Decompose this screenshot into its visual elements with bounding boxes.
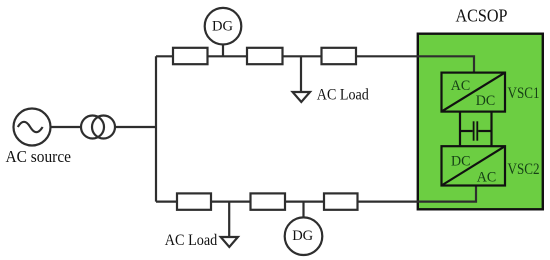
svg-text:DC: DC (451, 154, 471, 170)
svg-text:AC Load: AC Load (165, 232, 218, 249)
svg-text:VSC2: VSC2 (508, 161, 540, 178)
wire: DG1 stem (222, 44, 224, 56)
svg-text:DG: DG (212, 19, 233, 35)
resistor Z4 bottom line impedance (177, 193, 211, 209)
wire: top bus segment 3 (283, 55, 322, 57)
svg-text:AC Load: AC Load (317, 87, 369, 104)
wire: top AC load drop (300, 56, 302, 92)
wire: bottom bus left segment (156, 201, 177, 203)
wire: left vertical riser (155, 56, 157, 201)
green region ACSOP (418, 34, 543, 210)
wire: bottom bus segment 3 (285, 201, 324, 203)
svg-text:AC: AC (477, 169, 497, 185)
wire: AC source to transformer (51, 126, 82, 128)
wire: DC link left vertical (459, 112, 461, 147)
converter VSC2 box (442, 146, 506, 185)
wire: DG2 stem (302, 202, 304, 218)
wire: top bus segment into ACSOP with elbow down to VSC1 (356, 56, 474, 72)
DG1 circle (205, 8, 242, 45)
svg-text:VSC1: VSC1 (508, 85, 540, 102)
wire: top bus left segment (156, 55, 173, 57)
svg-text:DG: DG (292, 228, 313, 244)
svg-text:AC: AC (451, 78, 471, 94)
ground arrow bottom AC load (221, 237, 238, 247)
DG2 circle (285, 217, 323, 255)
resistor Z1 top line impedance (173, 48, 208, 64)
resistor Z6 bottom line impedance (324, 193, 358, 209)
svg-text:DC: DC (476, 93, 496, 109)
resistor Z3 top line impedance (322, 48, 357, 64)
svg-text:ACSOP: ACSOP (456, 6, 508, 26)
wire: bottom AC load drop (228, 202, 230, 237)
wire: DC link right vertical (490, 112, 492, 147)
wire: bottom bus into ACSOP with elbow up to VSC2 (358, 186, 477, 202)
capacitor C1 DC link (460, 121, 492, 140)
AC source G1 (14, 109, 51, 146)
ground arrow top AC load (293, 92, 310, 102)
converter VSC1 box (442, 73, 506, 112)
svg-text:AC source: AC source (6, 147, 72, 166)
resistor Z5 bottom line impedance (251, 193, 286, 209)
wire: bottom bus segment 2 (211, 201, 251, 203)
wire: top bus segment 2 (208, 55, 248, 57)
resistor Z2 top line impedance (247, 48, 283, 64)
transformer T1 (81, 116, 104, 139)
wire: transformer to riser (115, 126, 157, 128)
